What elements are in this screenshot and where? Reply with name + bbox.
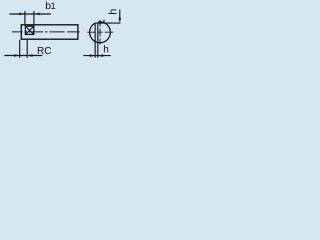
RC arrowhead right — [28, 54, 33, 57]
RC extension line left — [19, 40, 21, 58]
RC dimension line — [4, 55, 42, 57]
svg-text:h: h — [103, 44, 109, 55]
svg-text:h: h — [108, 9, 120, 15]
keyway slot bottom / depth extension line — [95, 22, 120, 24]
section vertical centerline — [99, 20, 101, 45]
b1 arrowhead left — [19, 13, 24, 16]
RC extension line right — [26, 40, 28, 58]
h width arrowhead right — [98, 54, 103, 57]
svg-text:b1: b1 — [45, 1, 55, 12]
b1 extension line right — [33, 11, 35, 26]
h depth dimension vertical line with down arrow — [119, 10, 121, 19]
b1 dimension line — [9, 13, 50, 15]
h width arrowhead left — [90, 54, 95, 57]
svg-text:RC: RC — [37, 46, 51, 57]
h width dimension line — [83, 55, 111, 57]
key section X diagonals — [26, 26, 34, 34]
keyway slot erase region — [95, 21, 99, 23]
shaft outline (side view) — [21, 25, 78, 39]
shaft section circle — [90, 22, 111, 43]
h width extension line left — [94, 23, 96, 57]
h width extension line right — [97, 22, 99, 57]
b1 arrowhead right — [35, 13, 40, 16]
keyway slot right wall — [103, 20, 105, 24]
centerline (side view) — [12, 31, 80, 33]
key section box — [25, 26, 33, 34]
b1 extension line left — [24, 11, 26, 26]
RC arrowhead left — [14, 54, 19, 57]
background panel — [0, 0, 125, 63]
section horizontal centerline — [87, 31, 113, 33]
